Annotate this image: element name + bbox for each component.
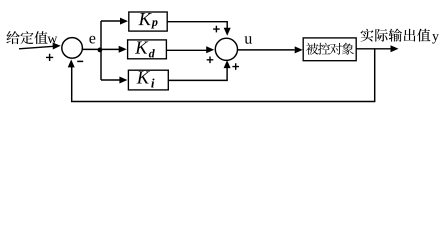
wire: branch vertical from Kp row to Ki row xyxy=(100,21,102,80)
summing junction S2 xyxy=(215,38,237,60)
block Kd (derivative gain) xyxy=(128,40,167,59)
wire: Kd output arrow into left of S2 xyxy=(166,46,214,53)
wire: arrow into Kp block xyxy=(101,18,128,25)
wire: arrow into Kd block xyxy=(100,46,127,53)
wire: plant output arrow y xyxy=(356,45,398,52)
label Kd xyxy=(135,41,155,57)
wire: u from S2 into plant block xyxy=(237,46,302,53)
block Kp (proportional gain) xyxy=(129,12,167,31)
junction dot: error branch node xyxy=(98,48,103,53)
plus sign: S2 left input polarity xyxy=(207,57,214,64)
wire: feedback from output node down, left and up into S1 xyxy=(68,49,375,102)
wire: Kp output to top of summing junction S2 xyxy=(167,22,231,36)
plus sign: S1 setpoint input polarity xyxy=(46,54,53,61)
wire: Ki output to bottom of summing junction S2 xyxy=(168,60,230,80)
label 被控对象 xyxy=(306,43,354,55)
summing junction S1 xyxy=(62,38,83,59)
wire: arrow into Ki block xyxy=(101,77,127,84)
label: actual output 实际输出值y xyxy=(361,29,439,44)
label Kp xyxy=(138,13,157,28)
plus sign: S2 bottom input polarity xyxy=(232,63,239,70)
plus sign: S2 top input polarity xyxy=(213,26,220,33)
label: setpoint 给定值w xyxy=(6,31,57,44)
node label e (error signal) xyxy=(89,36,95,44)
minus sign: S1 feedback input polarity xyxy=(77,60,83,62)
block plant 被控对象 (controlled object) xyxy=(303,38,356,61)
wire: setpoint input arrow into summing junction S1 xyxy=(19,43,61,50)
wire: error e from S1 to branch node xyxy=(82,48,100,50)
node label u (controller output) xyxy=(245,36,253,44)
block Ki (integral gain) xyxy=(128,70,168,90)
label Ki xyxy=(137,71,155,87)
